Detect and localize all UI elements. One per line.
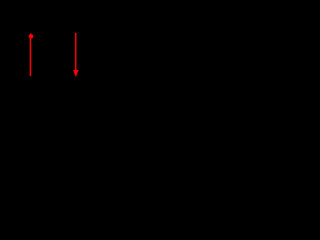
node dot: [29, 33, 34, 38]
wire: [30, 36, 32, 76]
current arrow: [73, 33, 79, 77]
